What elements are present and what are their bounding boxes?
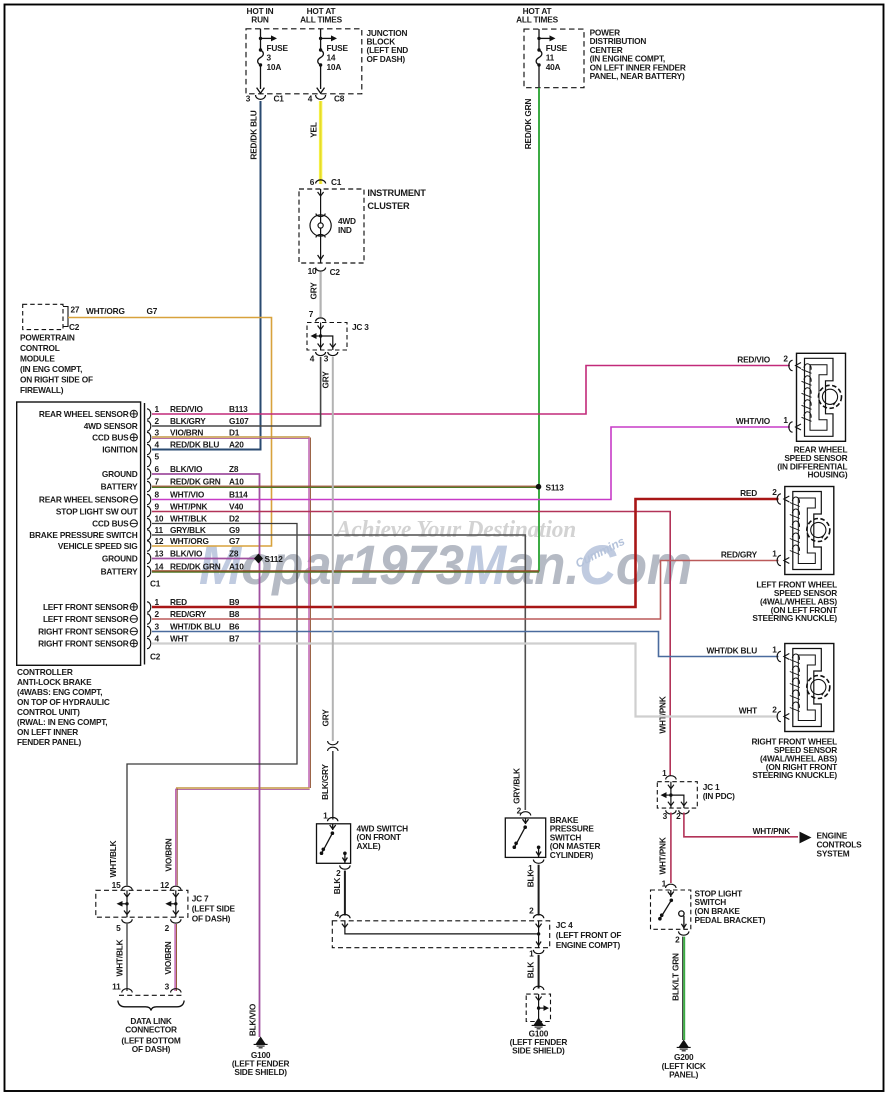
svg-text:(IN ENG COMPT,: (IN ENG COMPT, xyxy=(20,364,82,374)
svg-text:POWERTRAIN: POWERTRAIN xyxy=(20,333,75,343)
svg-text:REAR WHEEL SENSOR: REAR WHEEL SENSOR xyxy=(39,409,129,419)
svg-text:FENDER PANEL): FENDER PANEL) xyxy=(17,737,82,747)
svg-text:3: 3 xyxy=(267,53,272,63)
svg-text:OF DASH): OF DASH) xyxy=(192,914,231,924)
svg-text:12: 12 xyxy=(155,536,164,546)
svg-text:1: 1 xyxy=(772,549,777,559)
svg-text:CCD BUS: CCD BUS xyxy=(92,518,129,528)
pin 10 C2 (cluster bottom) xyxy=(308,266,341,277)
svg-text:27: 27 xyxy=(71,305,80,315)
power distribution center box xyxy=(524,28,686,88)
svg-text:RED/GRY: RED/GRY xyxy=(721,550,758,560)
connector C2 pin arcs xyxy=(147,602,151,649)
wire RED/DK BLU (fuse 3 to controller pin 4) xyxy=(152,101,261,450)
lamp 4WD IND xyxy=(310,189,331,263)
wire BLK/GRY (inline connector to 4WD switch pin 1) xyxy=(320,751,333,820)
svg-text:SYSTEM: SYSTEM xyxy=(817,849,850,859)
svg-text:WHT/DK BLU: WHT/DK BLU xyxy=(706,646,757,656)
svg-text:SIDE SHIELD): SIDE SHIELD) xyxy=(512,1046,565,1056)
svg-text:BLK/VIO: BLK/VIO xyxy=(170,548,203,558)
svg-text:4: 4 xyxy=(310,354,315,364)
svg-text:CLUSTER: CLUSTER xyxy=(367,201,410,211)
svg-text:10A: 10A xyxy=(267,62,282,72)
left front sensor pin 1 connector xyxy=(721,549,789,566)
svg-text:CONNECTOR: CONNECTOR xyxy=(125,1025,177,1035)
svg-text:15: 15 xyxy=(112,880,121,890)
svg-text:1: 1 xyxy=(155,597,160,607)
svg-text:RED: RED xyxy=(170,597,187,607)
svg-text:WHT/PNK: WHT/PNK xyxy=(170,501,208,511)
splice S113 xyxy=(536,483,565,493)
svg-text:WHT: WHT xyxy=(170,633,188,643)
svg-text:1: 1 xyxy=(772,645,777,655)
svg-text:WHT/BLK: WHT/BLK xyxy=(115,939,125,976)
svg-text:40A: 40A xyxy=(546,62,561,72)
svg-text:ALL TIMES: ALL TIMES xyxy=(516,15,559,25)
svg-text:JC 4: JC 4 xyxy=(556,920,573,930)
svg-text:BLK/GRY: BLK/GRY xyxy=(320,764,330,800)
svg-text:3: 3 xyxy=(165,982,170,992)
svg-text:C2: C2 xyxy=(150,652,161,662)
wire BLK/VIO (pin 13 to splice S112) xyxy=(152,558,256,560)
svg-text:G9: G9 xyxy=(229,525,240,535)
svg-text:VIO/BRN: VIO/BRN xyxy=(163,941,173,974)
svg-text:RUN: RUN xyxy=(251,15,269,25)
svg-text:B8: B8 xyxy=(229,609,240,619)
svg-text:(LEFT FRONT OF: (LEFT FRONT OF xyxy=(556,930,622,940)
svg-text:OF DASH): OF DASH) xyxy=(367,54,406,64)
svg-text:11: 11 xyxy=(112,982,121,992)
wire RED/DK GRN (fuse 11 to S113 to pin 14 row) xyxy=(523,88,539,572)
fuse F11 40A xyxy=(536,29,555,88)
pin 3 C1 (below fuse F3) xyxy=(246,94,285,104)
svg-text:11: 11 xyxy=(546,53,555,63)
wire WHT/DK BLU (C2 pin 3 to right front sensor pin 1) xyxy=(152,632,779,657)
splice S112 xyxy=(254,554,283,565)
svg-text:RIGHT FRONT SENSOR: RIGHT FRONT SENSOR xyxy=(38,626,129,636)
svg-text:BLK/LT GRN: BLK/LT GRN xyxy=(671,953,681,1001)
ground G100 (left) xyxy=(232,1037,290,1078)
powertrain control module box xyxy=(20,304,93,395)
svg-text:2: 2 xyxy=(676,811,681,821)
junction connector JC 7 xyxy=(96,880,236,933)
svg-text:S113: S113 xyxy=(546,483,565,493)
svg-text:WHT/VIO: WHT/VIO xyxy=(736,416,771,426)
svg-text:GRY/BLK: GRY/BLK xyxy=(170,525,206,535)
svg-text:INSTRUMENT: INSTRUMENT xyxy=(367,188,426,198)
svg-text:G107: G107 xyxy=(229,416,249,426)
svg-text:VIO/BRN: VIO/BRN xyxy=(170,427,203,437)
svg-text:BLK/VIO: BLK/VIO xyxy=(170,464,203,474)
svg-text:4: 4 xyxy=(335,909,340,919)
connector C1 pin arcs xyxy=(147,409,151,577)
svg-text:WHT/ORG: WHT/ORG xyxy=(170,536,209,546)
svg-text:WHT/PNK: WHT/PNK xyxy=(658,696,668,734)
svg-text:BLK: BLK xyxy=(526,962,536,979)
svg-text:4: 4 xyxy=(155,439,160,449)
svg-text:GROUND: GROUND xyxy=(102,469,138,479)
wire WHT (C2 pin 4 to right front sensor pin 2) xyxy=(152,644,779,717)
wire BLK/GRY (pin 2 to JC3 pin 4) xyxy=(152,357,321,426)
svg-text:YEL: YEL xyxy=(309,122,319,138)
rear wheel speed sensor xyxy=(777,353,848,479)
junction connector JC 1 xyxy=(657,768,735,821)
svg-text:2: 2 xyxy=(155,416,160,426)
svg-text:14: 14 xyxy=(327,53,336,63)
svg-text:Z8: Z8 xyxy=(229,464,239,474)
wire RED (C2 pin 1 to left front sensor pin 2) xyxy=(152,499,779,607)
svg-text:CONTROLLER: CONTROLLER xyxy=(17,667,73,677)
svg-text:WHT/BLK: WHT/BLK xyxy=(108,840,118,877)
wire RED/GRY (C2 pin 2 to left front sensor pin 1) xyxy=(152,561,779,620)
svg-text:2: 2 xyxy=(165,923,170,933)
4WD switch xyxy=(317,811,409,879)
svg-text:C8: C8 xyxy=(334,94,345,104)
svg-text:3: 3 xyxy=(155,427,160,437)
stoplight switch xyxy=(651,879,766,945)
svg-text:FUSE: FUSE xyxy=(546,43,568,53)
svg-text:BLK: BLK xyxy=(526,871,536,888)
svg-text:D1: D1 xyxy=(229,427,240,437)
svg-text:RED/VIO: RED/VIO xyxy=(170,404,203,414)
svg-text:BLK/GRY: BLK/GRY xyxy=(170,416,206,426)
svg-text:(4WABS: ENG COMPT,: (4WABS: ENG COMPT, xyxy=(17,687,102,697)
svg-text:GRY: GRY xyxy=(321,709,331,727)
svg-text:13: 13 xyxy=(155,548,164,558)
svg-text:FIREWALL): FIREWALL) xyxy=(20,385,64,395)
ground G200 xyxy=(662,1040,706,1080)
vertical wire labels above JC7 xyxy=(164,838,174,871)
svg-text:1: 1 xyxy=(783,415,788,425)
svg-text:(RWAL: IN ENG COMPT,: (RWAL: IN ENG COMPT, xyxy=(17,717,107,727)
svg-text:PANEL): PANEL) xyxy=(669,1070,699,1080)
svg-text:RED/GRY: RED/GRY xyxy=(170,609,207,619)
wire RED/DK GRN (pin 14 to fuse 11 feed) xyxy=(152,571,539,572)
wire WHT/BLK (pin 10 to JC7 pin 15, CCD bus -) xyxy=(108,524,297,886)
svg-text:3: 3 xyxy=(324,354,329,364)
rear sensor pin 1 connector xyxy=(736,415,801,432)
svg-text:WHT: WHT xyxy=(739,706,757,716)
svg-text:A10: A10 xyxy=(229,476,244,486)
svg-text:ANTI-LOCK BRAKE: ANTI-LOCK BRAKE xyxy=(17,677,92,687)
wire RED/DK GRN (pin 7 to splice S113) xyxy=(152,486,536,487)
wire VIO/BRN (JC7 pin 2 to DLC pin 3) xyxy=(163,924,177,991)
svg-text:D2: D2 xyxy=(229,513,240,523)
watermark: Achieve Your Destination xyxy=(334,517,576,543)
svg-text:B9: B9 xyxy=(229,597,240,607)
node HOT IN RUN xyxy=(247,6,274,25)
svg-text:10: 10 xyxy=(308,266,317,276)
svg-text:WHT/BLK: WHT/BLK xyxy=(170,513,207,523)
svg-text:HOUSING): HOUSING) xyxy=(808,470,848,480)
svg-text:G7: G7 xyxy=(147,306,158,316)
wire BLK/LT GRN (stoplight switch to G200) xyxy=(671,937,685,1040)
svg-text:FUSE: FUSE xyxy=(327,43,349,53)
right front sensor pin 2 connector xyxy=(739,705,790,722)
svg-text:5: 5 xyxy=(116,923,121,933)
svg-text:C2: C2 xyxy=(69,322,80,332)
svg-text:WHT/DK BLU: WHT/DK BLU xyxy=(170,621,221,631)
svg-text:LEFT FRONT SENSOR: LEFT FRONT SENSOR xyxy=(43,614,129,624)
svg-text:IGNITION: IGNITION xyxy=(102,444,137,454)
right front wheel speed sensor xyxy=(751,644,837,781)
wire WHT/ORG G7 (PCM to controller pin 12) xyxy=(68,306,272,546)
svg-text:(IN PDC): (IN PDC) xyxy=(703,791,735,801)
node ENGINE CONTROLS SYSTEM xyxy=(800,831,863,859)
svg-text:BATTERY: BATTERY xyxy=(101,481,139,491)
svg-text:SIDE SHIELD): SIDE SHIELD) xyxy=(234,1067,287,1077)
svg-text:JC 3: JC 3 xyxy=(352,322,369,332)
svg-text:AXLE): AXLE) xyxy=(357,841,381,851)
fuse F3 10A xyxy=(257,29,277,93)
svg-text:PANEL, NEAR BATTERY): PANEL, NEAR BATTERY) xyxy=(590,71,685,81)
ground connector G100 (center) xyxy=(510,986,568,1055)
wire BLK (brake pressure switch to JC4 pin 2) xyxy=(526,865,539,916)
C2 pin numbers and wire labels xyxy=(150,597,240,662)
C2 pin function labels xyxy=(38,602,137,649)
svg-text:MODULE: MODULE xyxy=(20,354,55,364)
svg-text:GRY: GRY xyxy=(321,371,331,389)
svg-text:WHT/ORG: WHT/ORG xyxy=(86,306,125,316)
svg-text:2: 2 xyxy=(783,354,788,364)
svg-text:C1: C1 xyxy=(331,177,342,187)
svg-text:3: 3 xyxy=(663,811,668,821)
wire GRY (cluster to JC3) xyxy=(309,272,321,317)
svg-text:RED/DK GRN: RED/DK GRN xyxy=(523,99,533,150)
inline connector (GRY to BLK/GRY) xyxy=(328,741,338,751)
node HOT AT ALL TIMES (junction block) xyxy=(300,6,343,25)
svg-text:BLK/VIO: BLK/VIO xyxy=(248,1003,258,1036)
svg-text:1: 1 xyxy=(323,811,328,821)
svg-text:WHT/PNK: WHT/PNK xyxy=(658,837,668,875)
svg-text:GRY/BLK: GRY/BLK xyxy=(512,768,522,804)
svg-text:7: 7 xyxy=(155,476,160,486)
svg-text:OF DASH): OF DASH) xyxy=(132,1044,171,1054)
svg-text:2: 2 xyxy=(772,487,777,497)
svg-text:2: 2 xyxy=(336,868,341,878)
svg-text:RED/DK GRN: RED/DK GRN xyxy=(170,476,221,486)
svg-text:STEERING KNUCKLE): STEERING KNUCKLE) xyxy=(752,770,837,780)
wire WHT/PNK (JC1 pin 3 to stoplight switch pin 1) xyxy=(658,813,671,884)
svg-text:2: 2 xyxy=(772,705,777,715)
wire BLK (4WD switch to JC4 pin 4) xyxy=(332,871,345,916)
svg-text:4WD SENSOR: 4WD SENSOR xyxy=(84,421,138,431)
svg-text:VIO/BRN: VIO/BRN xyxy=(164,838,174,871)
svg-text:B7: B7 xyxy=(229,633,240,643)
svg-text:WHT/VIO: WHT/VIO xyxy=(170,489,205,499)
instrument cluster box xyxy=(299,188,426,263)
svg-text:BLK: BLK xyxy=(332,878,342,895)
svg-text:12: 12 xyxy=(160,880,169,890)
wire BLK (JC4 pin 1 to G100) xyxy=(526,955,539,989)
svg-text:C1: C1 xyxy=(150,579,161,589)
svg-text:RED: RED xyxy=(740,488,757,498)
svg-text:10A: 10A xyxy=(327,62,342,72)
svg-text:B114: B114 xyxy=(229,489,248,499)
fuse F14 10A xyxy=(317,29,337,93)
svg-text:14: 14 xyxy=(155,561,164,571)
svg-text:6: 6 xyxy=(310,177,315,187)
svg-text:IND: IND xyxy=(338,225,352,235)
svg-text:2: 2 xyxy=(675,935,680,945)
right front sensor pin 1 connector xyxy=(706,645,789,662)
svg-text:G7: G7 xyxy=(229,536,240,546)
svg-text:RIGHT FRONT SENSOR: RIGHT FRONT SENSOR xyxy=(38,638,129,648)
svg-text:VEHICLE SPEED SIG: VEHICLE SPEED SIG xyxy=(58,541,138,551)
svg-text:JC 7: JC 7 xyxy=(192,894,209,904)
svg-text:A10: A10 xyxy=(229,561,244,571)
svg-text:BRAKE PRESSURE SWITCH: BRAKE PRESSURE SWITCH xyxy=(29,530,137,540)
svg-text:4: 4 xyxy=(308,94,313,104)
wire WHT/PNK (pin 9 to JC1 pin 1) xyxy=(152,512,670,777)
svg-text:ENGINE COMPT): ENGINE COMPT) xyxy=(556,940,621,950)
wire WHT/VIO (pin 8 to rear sensor pin 1) xyxy=(152,427,790,500)
svg-text:B6: B6 xyxy=(229,621,240,631)
svg-text:9: 9 xyxy=(155,501,160,511)
svg-text:RED/DK BLU: RED/DK BLU xyxy=(249,110,259,159)
svg-text:C1: C1 xyxy=(274,94,285,104)
svg-text:3: 3 xyxy=(246,94,251,104)
svg-text:GRY: GRY xyxy=(309,282,319,300)
svg-text:CCD BUS: CCD BUS xyxy=(92,432,129,442)
left front sensor pin 2 connector xyxy=(740,487,789,504)
wire WHT/BLK (JC7 pin 5 to DLC pin 11) xyxy=(115,924,128,991)
pin 4 C8 (below fuse F14) xyxy=(308,94,345,104)
svg-text:ON RIGHT SIDE OF: ON RIGHT SIDE OF xyxy=(20,375,93,385)
svg-text:RED/VIO: RED/VIO xyxy=(737,355,770,365)
svg-text:8: 8 xyxy=(155,489,160,499)
svg-text:1: 1 xyxy=(155,404,160,414)
wire BLK/VIO (pin 6 down through S112 to G100) xyxy=(152,474,260,1037)
svg-text:RED/DK BLU: RED/DK BLU xyxy=(170,439,219,449)
svg-text:10: 10 xyxy=(155,513,164,523)
rear sensor pin 2 connector xyxy=(737,354,801,371)
wire WHT/PNK (JC1 pin 2 to engine controls system) xyxy=(684,813,798,837)
svg-text:FUSE: FUSE xyxy=(267,43,289,53)
svg-text:STOP LIGHT SW OUT: STOP LIGHT SW OUT xyxy=(56,506,138,516)
svg-text:2: 2 xyxy=(155,609,160,619)
svg-text:(LEFT SIDE: (LEFT SIDE xyxy=(192,904,236,914)
svg-text:V40: V40 xyxy=(229,501,244,511)
svg-text:PEDAL BRACKET): PEDAL BRACKET) xyxy=(695,915,766,925)
svg-text:4: 4 xyxy=(155,633,160,643)
svg-text:B113: B113 xyxy=(229,404,248,414)
svg-text:Z8: Z8 xyxy=(229,548,239,558)
svg-text:LEFT FRONT SENSOR: LEFT FRONT SENSOR xyxy=(43,602,129,612)
controller anti-lock brake box xyxy=(17,402,145,747)
node HOT AT ALL TIMES (PDC) xyxy=(516,6,559,25)
pin 6 C1 (cluster top) xyxy=(310,177,342,187)
svg-text:ON TOP OF HYDRAULIC: ON TOP OF HYDRAULIC xyxy=(17,697,110,707)
wire VIO/BRN (pin 3 to JC7 pin 12, CCD bus +) xyxy=(152,437,310,886)
brake pressure switch xyxy=(505,806,600,874)
watermark: Mopar1973Man.Com logo xyxy=(199,533,692,596)
svg-text:2: 2 xyxy=(529,906,534,916)
svg-text:CONTROL: CONTROL xyxy=(20,343,60,353)
svg-text:BATTERY: BATTERY xyxy=(101,566,139,576)
svg-text:ALL TIMES: ALL TIMES xyxy=(300,15,343,25)
C1 pin function labels xyxy=(29,409,138,577)
C1 pin numbers and wire labels xyxy=(150,404,249,589)
svg-text:REAR WHEEL SENSOR: REAR WHEEL SENSOR xyxy=(39,494,129,504)
data link connector xyxy=(112,982,184,1055)
svg-text:CONTROL UNIT): CONTROL UNIT) xyxy=(17,707,80,717)
svg-text:3: 3 xyxy=(155,621,160,631)
left front wheel speed sensor xyxy=(752,487,837,624)
wire RED/VIO (pin 1 to rear sensor pin 2) xyxy=(152,366,790,415)
svg-text:GROUND: GROUND xyxy=(102,553,138,563)
svg-text:1: 1 xyxy=(529,949,534,959)
junction block box xyxy=(246,28,408,94)
svg-text:RED/DK GRN: RED/DK GRN xyxy=(170,561,221,571)
wire GRY (JC3 pin 3 down to inline connector) xyxy=(321,357,333,741)
svg-text:11: 11 xyxy=(155,525,164,535)
svg-text:7: 7 xyxy=(309,309,314,319)
svg-text:6: 6 xyxy=(155,464,160,474)
svg-text:STEERING KNUCKLE): STEERING KNUCKLE) xyxy=(752,613,837,623)
svg-text:CYLINDER): CYLINDER) xyxy=(550,850,594,860)
wire YEL (fuse 14 to cluster) xyxy=(309,101,321,184)
junction connector JC 3 xyxy=(307,309,369,364)
junction connector JC 4 xyxy=(332,906,621,959)
svg-text:S112: S112 xyxy=(265,554,284,564)
wire GRY/BLK (pin 11 to brake pressure switch pin 2) xyxy=(152,535,525,810)
svg-text:C2: C2 xyxy=(330,267,341,277)
svg-text:WHT/PNK: WHT/PNK xyxy=(753,826,791,836)
svg-text:A20: A20 xyxy=(229,439,244,449)
svg-text:5: 5 xyxy=(155,452,160,462)
svg-text:ON LEFT INNER: ON LEFT INNER xyxy=(17,727,78,737)
svg-text:1: 1 xyxy=(662,768,667,778)
